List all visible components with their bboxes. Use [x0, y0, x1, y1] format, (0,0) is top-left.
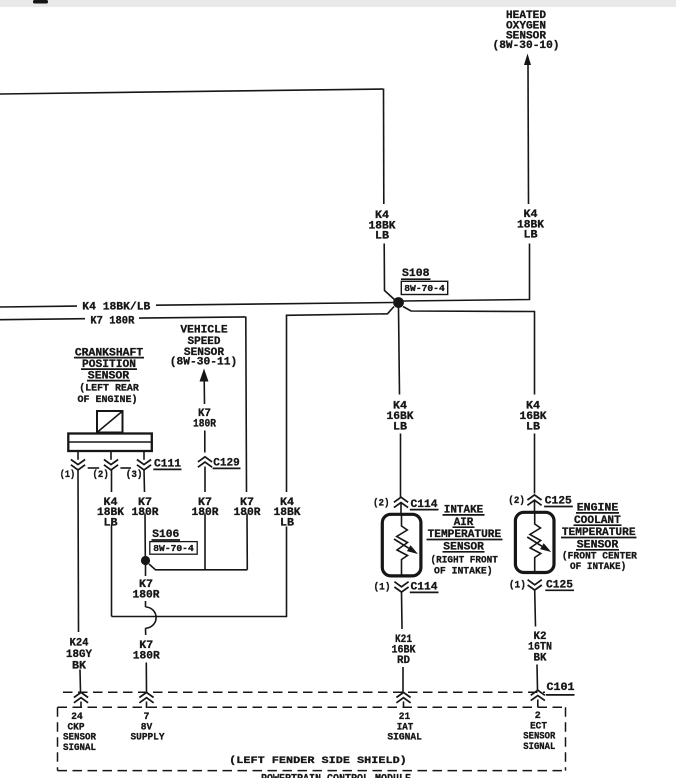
svg-text:(8W-30-11): (8W-30-11)	[170, 357, 238, 369]
label K4 18BK LB (CKP ground wire right leg)	[274, 497, 301, 530]
wire K4 18BK LB to heated oxygen sensor (upper segment)	[527, 64, 530, 205]
wire K7 180R to VSS (segment above C129)	[204, 431, 206, 453]
wire K4 18BK/LB vertical drop to S108 (upper segment)	[383, 89, 385, 205]
wire K4 18BK LB to heated oxygen sensor (lower segment)	[403, 244, 530, 302]
svg-text:(2): (2)	[373, 497, 390, 509]
wire CKP pin 2 stub above label	[111, 470, 113, 492]
wire K4 to ECT sensor (from S108, upper segment)	[403, 307, 535, 395]
svg-text:K4 18BK/LB: K4 18BK/LB	[82, 302, 150, 314]
label S106	[152, 529, 181, 541]
label ENGINE COOLANT TEMPERATURE SENSOR	[561, 503, 637, 552]
svg-text:(LEFT REAR: (LEFT REAR	[79, 383, 139, 395]
wire into IAT sensor	[400, 502, 402, 515]
label C129	[213, 457, 241, 469]
label C114 (lower)	[410, 582, 439, 594]
svg-text:C101: C101	[547, 682, 575, 694]
connector C101 pin 24 terminal	[74, 692, 88, 702]
IAT sensor body	[382, 514, 421, 576]
wire K7 180R to VSS (segment below arrow)	[203, 379, 205, 404]
connector C111 pin 3 terminal	[137, 460, 151, 470]
svg-text:POWERTRAIN CONTROL MODULE: POWERTRAIN CONTROL MODULE	[261, 773, 411, 778]
label K4 18BK/LB	[82, 302, 150, 314]
connector C101 dashed boundary	[63, 691, 545, 693]
wire K4 18BK LB riser to CKP pin 2	[111, 525, 113, 617]
arrow to heated oxygen sensor	[524, 54, 531, 66]
label C125 (upper)	[544, 496, 573, 508]
label K21 16BK RD	[392, 634, 416, 667]
wire K21 16BK RD from IAT (upper segment)	[401, 592, 404, 629]
wire K4 18BK/LB vertical drop to S108 (lower segment)	[384, 244, 395, 301]
label (1) at C125	[509, 579, 526, 591]
svg-text:180R: 180R	[193, 419, 216, 431]
label K4 16BK LB (ECT wire)	[520, 400, 547, 433]
connector C129 terminal	[198, 457, 212, 467]
cut-off text fragment top-left	[33, 0, 48, 4]
CKP pin 3 stub	[143, 451, 145, 460]
label C125 (lower)	[545, 580, 574, 592]
label PCM pin 21 IAT SIGNAL	[387, 712, 422, 744]
svg-text:OF ENGINE): OF ENGINE)	[78, 394, 138, 406]
wire K7 180R from CKP pin 3 into S106	[144, 514, 146, 557]
label C101	[546, 682, 575, 695]
svg-text:C129: C129	[213, 457, 240, 469]
splice S108 junction dot	[393, 297, 404, 308]
wire K7 180R below C129	[204, 467, 206, 493]
wire K4 to IAT sensor (from S108, upper segment)	[399, 308, 400, 395]
label K4 16BK LB (IAT wire)	[387, 400, 414, 433]
svg-text:SIGNAL: SIGNAL	[63, 743, 96, 754]
label S108	[401, 268, 431, 280]
wire K2 stub into PCM	[537, 700, 539, 708]
wire K7 180R from VSS label to S106 run	[204, 514, 206, 570]
wire K7 180R with crossover loop over K4 run	[146, 601, 157, 635]
IAT thermistor element	[394, 515, 418, 576]
label K4 18BK LB (oxygen sensor wire)	[517, 209, 544, 242]
svg-text:8W-70-4: 8W-70-4	[404, 283, 445, 294]
svg-text:(1): (1)	[60, 469, 75, 481]
label (LEFT REAR OF ENGINE)	[78, 383, 139, 407]
wire K24 18GY BK (lower segment)	[79, 670, 82, 693]
wire K4 18BK LB from S108 to CKP sensor (horizontal run)	[287, 307, 395, 493]
label (1)	[60, 469, 75, 481]
svg-text:RD: RD	[397, 655, 410, 667]
label (2) at C125	[508, 495, 525, 507]
label VEHICLE SPEED SENSOR (8W-30-11)	[170, 325, 238, 369]
wire K4 18BK LB right leg (lower segment)	[112, 527, 287, 617]
label K7 180R	[90, 316, 134, 328]
wire K21 stub into PCM	[403, 702, 405, 709]
ECT sensor body	[515, 512, 554, 572]
svg-text:180R: 180R	[133, 651, 160, 663]
connector C111 pin 1 terminal	[71, 460, 85, 470]
connector C125 upper terminal	[527, 495, 541, 505]
svg-text:LB: LB	[526, 422, 540, 434]
svg-text:LB: LB	[375, 231, 389, 243]
label CRANKSHAFT POSITION SENSOR	[74, 347, 144, 382]
svg-text:S108: S108	[402, 268, 430, 280]
svg-text:(LEFT FENDER SIDE SHIELD): (LEFT FENDER SIDE SHIELD)	[229, 755, 407, 767]
svg-text:BK: BK	[72, 661, 86, 673]
wire K2 16TN BK from ECT (upper segment)	[534, 590, 537, 627]
connector C114 upper terminal	[394, 497, 408, 507]
label PCM pin 2 ECT SENSOR SIGNAL	[523, 711, 555, 753]
svg-text:(FRONT CENTER: (FRONT CENTER	[562, 550, 637, 562]
wire K7 180R below S106 (upper segment)	[145, 565, 147, 577]
label K24 18GY BK	[66, 637, 92, 672]
svg-text:LB: LB	[104, 518, 118, 530]
label POWERTRAIN CONTROL MODULE (clipped at page bottom)	[261, 773, 411, 778]
label PCM pin 24 CKP SENSOR SIGNAL	[63, 712, 96, 754]
label K7 180R (CKP pin 3 wire)	[132, 497, 159, 519]
wire K24 stub into PCM	[80, 702, 82, 709]
label C111	[153, 458, 181, 470]
wire into ECT sensor	[534, 500, 536, 513]
splice S106 junction dot	[141, 556, 150, 565]
svg-text:SIGNAL: SIGNAL	[387, 733, 422, 744]
svg-text:SUPPLY: SUPPLY	[131, 733, 165, 744]
wire K7 180R (segment above C101)	[145, 663, 147, 693]
svg-text:K7 180R: K7 180R	[90, 316, 134, 328]
svg-text:(3): (3)	[126, 469, 143, 481]
label (LEFT FENDER SIDE SHIELD)	[229, 755, 407, 767]
svg-text:SIGNAL: SIGNAL	[523, 742, 555, 753]
wire K7 180R from PCM (segment to corner)	[139, 317, 246, 318]
reference box 8W-70-4 at S108	[401, 281, 447, 294]
svg-text:BK: BK	[534, 652, 547, 664]
CKP pin 2 stub	[110, 451, 112, 460]
svg-text:S106: S106	[152, 529, 179, 541]
wire K7 180R right leg (upper segment)	[245, 317, 248, 493]
label K7 180R (VSS wire below C129)	[192, 497, 219, 519]
wire K7 stub into PCM	[146, 702, 148, 709]
label K7 180R (above PCM pin 7)	[133, 640, 160, 663]
connector C111 pin 2 terminal	[104, 460, 118, 470]
label PCM pin 7 8V SUPPLY	[131, 712, 165, 744]
connector C125 lower terminal	[528, 580, 542, 590]
svg-text:(8W-30-10): (8W-30-10)	[493, 40, 560, 52]
svg-text:(2): (2)	[508, 495, 525, 507]
svg-text:(RIGHT FRONT: (RIGHT FRONT	[431, 555, 498, 567]
svg-text:(1): (1)	[374, 581, 391, 593]
svg-text:OF INTAKE): OF INTAKE)	[570, 561, 626, 573]
CKP pin 1 stub	[77, 451, 79, 460]
wire K7 180R right leg (lower segment)	[246, 514, 248, 570]
wire K4 18BK/LB horizontal from page left	[0, 89, 383, 94]
svg-text:18GY: 18GY	[66, 649, 92, 661]
page edge scan artifact (gray strip)	[0, 0, 676, 7]
wire K7 180R from PCM (left segment)	[0, 319, 85, 320]
label INTAKE AIR TEMPERATURE SENSOR	[427, 505, 503, 554]
connector C111 dashed separator	[88, 467, 131, 469]
wire K2 16TN BK (lower segment)	[536, 665, 539, 691]
connector C101 pin 2 terminal	[531, 690, 545, 700]
powertrain control module dashed outline	[58, 707, 567, 770]
svg-text:LB: LB	[524, 230, 538, 242]
label K7 180R (VSS wire above C129)	[193, 408, 216, 430]
label (2) at C114	[373, 497, 390, 509]
svg-text:LB: LB	[393, 422, 407, 434]
svg-text:8W-70-4: 8W-70-4	[153, 543, 194, 554]
label HEATED OXYGEN SENSOR (8W-30-10)	[493, 10, 560, 52]
crankshaft position sensor body (pickup element)	[97, 411, 123, 433]
label K2 16TN BK	[528, 631, 552, 664]
svg-text:(1): (1)	[509, 579, 526, 591]
label (2)	[93, 469, 109, 481]
label (RIGHT FRONT OF INTAKE)	[431, 555, 498, 578]
crankshaft position sensor body (base)	[68, 434, 152, 452]
svg-text:180R: 180R	[133, 590, 160, 602]
arrow to vehicle speed sensor	[200, 369, 209, 382]
label (1) at C114	[374, 581, 391, 593]
label K7 180R (below S106)	[133, 579, 160, 601]
svg-text:C111: C111	[154, 458, 181, 470]
wire S106 branch to right (collector run)	[149, 564, 247, 570]
label K4 18BK LB (CKP pin 2 wire)	[97, 497, 124, 530]
wire K21 16BK RD (lower segment)	[402, 667, 404, 692]
wire K7 180R from CKP pin 3 (upper segment)	[143, 470, 146, 492]
wire K4 18BK/LB from PCM (right segment to S108)	[156, 303, 393, 306]
reference box 8W-70-4 at S106	[150, 542, 197, 555]
svg-text:(2): (2)	[93, 469, 109, 481]
connector C101 pin 21 terminal	[396, 692, 410, 702]
wire K24 18GY BK from CKP pin 1 (upper segment)	[77, 470, 80, 632]
wire K4 18BK/LB from PCM (left segment)	[0, 305, 77, 308]
svg-text:OF INTAKE): OF INTAKE)	[434, 565, 493, 577]
label (FRONT CENTER OF INTAKE)	[562, 550, 637, 573]
label K4 18BK LB (vertical feed wire)	[369, 210, 396, 243]
connector C101 pin 7 terminal	[139, 692, 153, 702]
label C114 (upper)	[410, 499, 439, 511]
wire K4 to ECT sensor (lower segment)	[534, 434, 536, 494]
ECT thermistor element	[527, 513, 551, 573]
svg-text:K24: K24	[70, 637, 89, 649]
wire K4 to IAT sensor (lower segment)	[400, 434, 402, 498]
label K7 180R (right leg)	[234, 497, 261, 519]
connector C114 lower terminal	[394, 582, 408, 592]
label (3)	[126, 469, 143, 481]
